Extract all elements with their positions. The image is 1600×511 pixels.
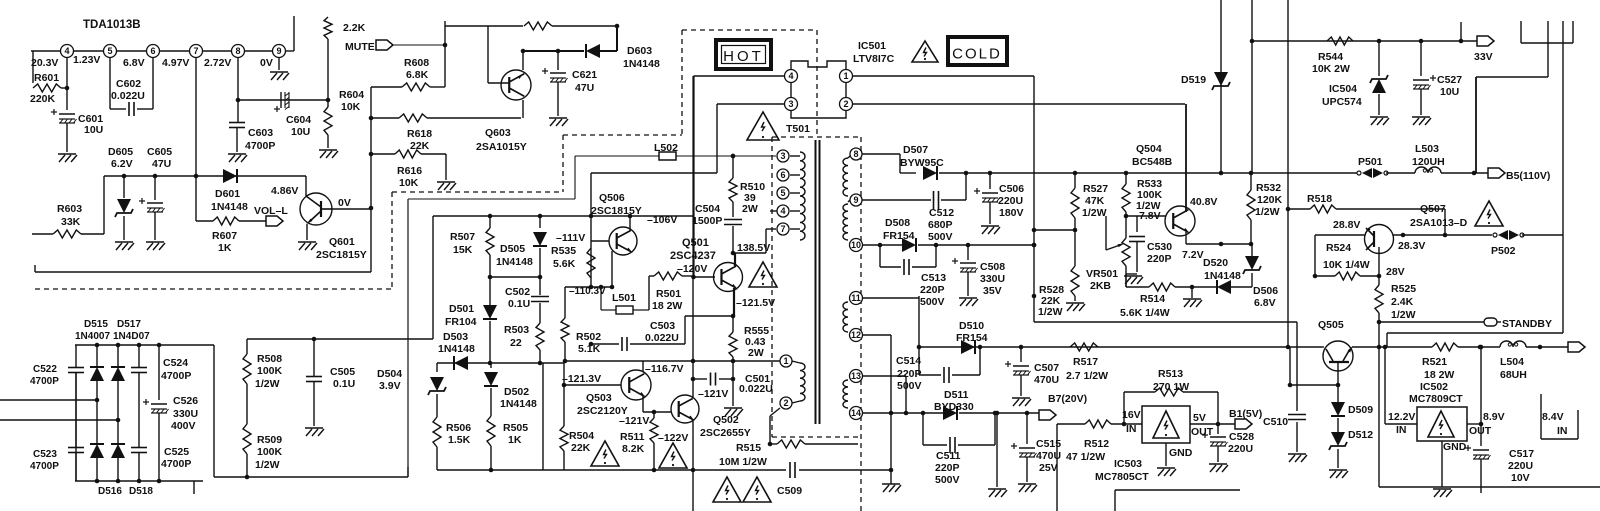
svg-text:180V: 180V (999, 207, 1024, 219)
wire Q501 collector (734, 253, 736, 266)
svg-text:FR154: FR154 (956, 332, 988, 344)
svg-text:0V: 0V (338, 197, 351, 209)
wire main emitter rail (565, 360, 780, 362)
svg-text:4700P: 4700P (161, 458, 191, 470)
wire box left (432, 216, 434, 339)
resistor 2.2K (324, 17, 332, 39)
svg-text:D503: D503 (443, 331, 468, 343)
svg-text:500V: 500V (920, 296, 945, 308)
svg-text:–111V: –111V (556, 232, 585, 244)
connector 33V (1477, 36, 1494, 46)
svg-text:P502: P502 (1491, 245, 1516, 257)
svg-text:C506: C506 (999, 183, 1024, 195)
svg-text:3: 3 (788, 99, 793, 109)
diode D601 (223, 169, 237, 183)
svg-text:R607: R607 (212, 230, 237, 242)
svg-text:C530: C530 (1147, 241, 1172, 253)
inductor L503 (1415, 167, 1441, 173)
svg-text:C513: C513 (921, 272, 946, 284)
svg-text:1K: 1K (218, 242, 232, 254)
transistor Q501 (714, 263, 743, 292)
svg-text:R512: R512 (1084, 438, 1109, 450)
diode D517 (117, 345, 119, 366)
svg-text:22K: 22K (571, 442, 591, 454)
wire pin11 ext (918, 296, 920, 298)
svg-text:B1(5V): B1(5V) (1229, 408, 1262, 420)
svg-text:1N4148: 1N4148 (500, 398, 537, 410)
diode D520 (1217, 280, 1231, 294)
capacitor C513 (879, 245, 881, 267)
wire Q503 base node (563, 363, 565, 385)
diode D605 zener (123, 176, 125, 198)
resistor R515 (770, 408, 780, 416)
wire D601 to Q601 (305, 176, 307, 196)
svg-text:Q503: Q503 (586, 392, 612, 404)
svg-text:IN: IN (1396, 424, 1407, 436)
svg-text:L503: L503 (1415, 143, 1439, 155)
svg-text:1/2W: 1/2W (1391, 309, 1416, 321)
svg-text:12.2V: 12.2V (1388, 411, 1415, 423)
diode D505 (539, 216, 541, 228)
svg-text:R601: R601 (34, 72, 59, 84)
resistor R513 bypass (1123, 392, 1125, 424)
svg-text:1N4148: 1N4148 (623, 58, 660, 70)
warning triangle b4 (743, 477, 771, 502)
svg-text:7: 7 (780, 224, 785, 234)
svg-text:C605: C605 (147, 146, 172, 158)
transistor Q506 (609, 227, 637, 255)
svg-text:1N4148: 1N4148 (438, 343, 475, 355)
wire bridge right col (213, 345, 215, 477)
svg-text:C621: C621 (572, 69, 597, 81)
wire bottom box right (1115, 489, 1240, 491)
wire bridge bottom rail (75, 480, 203, 482)
svg-text:4: 4 (788, 71, 793, 81)
svg-text:–116.7V: –116.7V (645, 363, 684, 375)
svg-text:1/2W: 1/2W (1082, 207, 1107, 219)
resistor R514 (1126, 286, 1149, 288)
resistor R601 (32, 51, 34, 83)
resistor R521 (1432, 343, 1458, 351)
svg-text:BYW95C: BYW95C (900, 157, 944, 169)
diode D501 (483, 305, 497, 319)
connector STANDBY (1484, 318, 1497, 326)
wire r527 tap (1034, 229, 1075, 231)
connector pair P502 (1493, 233, 1497, 237)
svg-text:4: 4 (780, 206, 785, 216)
wire rail q505 l (1322, 346, 1324, 348)
svg-text:C510: C510 (1263, 416, 1288, 428)
svg-text:BYD330: BYD330 (934, 401, 974, 413)
capacitor C507 (1020, 347, 1022, 362)
svg-text:D506: D506 (1253, 285, 1278, 297)
svg-text:Q506: Q506 (599, 192, 625, 204)
pin 5 (104, 45, 117, 58)
svg-text:R501: R501 (656, 288, 681, 300)
regulator IC502 box (1417, 407, 1467, 441)
svg-text:R511: R511 (620, 431, 645, 443)
resistor R506 (433, 417, 441, 447)
opto IC501 pin4 (785, 70, 798, 83)
resistor R604 (327, 100, 329, 107)
wire pin row (31, 50, 286, 52)
transformer pin 8 (850, 148, 862, 160)
resistor R535 (587, 248, 595, 278)
svg-text:10K: 10K (399, 177, 419, 189)
resistor R507 (489, 216, 491, 228)
svg-text:3: 3 (780, 151, 785, 161)
wire Q601 collector 0V (332, 208, 371, 210)
wire bridge mid left1 (0, 399, 97, 401)
svg-text:47K: 47K (1085, 195, 1105, 207)
wire standby rail (1034, 321, 1297, 323)
svg-text:C514: C514 (896, 355, 921, 367)
svg-text:R521: R521 (1422, 356, 1447, 368)
inductor L504 (1500, 341, 1526, 347)
wire pin8 down (237, 58, 239, 122)
svg-text:4700P: 4700P (30, 376, 59, 387)
transformer pin 14 (850, 407, 863, 420)
wire standby link (1562, 235, 1564, 333)
svg-text:D512: D512 (1348, 429, 1373, 441)
svg-text:28V: 28V (1386, 266, 1405, 278)
svg-text:220K: 220K (30, 93, 56, 105)
svg-text:Q507: Q507 (1420, 203, 1446, 215)
svg-text:D515: D515 (84, 319, 108, 330)
transformer core (815, 140, 817, 424)
svg-text:6.2V: 6.2V (111, 158, 133, 170)
svg-text:C604: C604 (286, 114, 311, 126)
zener D512 (1331, 432, 1345, 446)
wire IC502 out col (1480, 347, 1482, 424)
resistor R501 (648, 276, 650, 310)
svg-text:8.9V: 8.9V (1483, 411, 1505, 423)
pot VR501 (1125, 216, 1127, 238)
svg-text:6.8V: 6.8V (123, 57, 145, 69)
svg-text:R603: R603 (57, 203, 82, 215)
svg-text:R502: R502 (576, 331, 601, 343)
transistor Q502 (671, 395, 699, 423)
transformer pin 4 (777, 205, 789, 217)
diode D511 (943, 406, 957, 420)
svg-text:13: 13 (851, 371, 861, 381)
capacitor C523 (75, 400, 77, 447)
wire bridge mid left2 (0, 419, 118, 421)
connector B1 (1235, 419, 1252, 429)
svg-text:R508: R508 (257, 353, 282, 365)
ground C501 (724, 407, 742, 409)
wire right box (1378, 347, 1380, 487)
svg-text:500V: 500V (897, 380, 922, 392)
svg-text:10K 1/4W: 10K 1/4W (1323, 259, 1370, 271)
svg-text:FR154: FR154 (883, 230, 915, 242)
svg-text:8.2K: 8.2K (622, 443, 645, 455)
svg-text:IC504: IC504 (1329, 83, 1357, 95)
wire r512 down (1056, 424, 1058, 511)
svg-text:7: 7 (193, 46, 198, 56)
wire bridge exit stub (193, 481, 195, 494)
svg-text:4.97V: 4.97V (162, 57, 189, 69)
ground C508 (959, 297, 977, 299)
svg-text:Q501: Q501 (682, 237, 709, 249)
transformer pin 12 (850, 329, 863, 342)
transistor Q505 (1323, 341, 1353, 371)
svg-text:C502: C502 (505, 286, 530, 298)
svg-text:D504: D504 (377, 368, 402, 380)
transformer pin 11 (850, 292, 863, 305)
svg-text:C523: C523 (33, 449, 57, 460)
resistor R528 (1071, 266, 1079, 296)
capacitor C530 (1136, 216, 1138, 232)
svg-text:1N4148: 1N4148 (496, 256, 533, 268)
svg-text:C524: C524 (163, 357, 188, 369)
svg-text:35V: 35V (983, 285, 1002, 297)
wire bottom rail (437, 469, 786, 471)
svg-text:0.1U: 0.1U (333, 378, 355, 390)
wire pin1 right (852, 75, 1034, 77)
svg-text:IC503: IC503 (1114, 458, 1142, 470)
dashed hot boundary (35, 288, 392, 290)
wire q507 rail l (1315, 234, 1365, 236)
transistor Q503 (621, 370, 651, 400)
wire opto1 down (1033, 76, 1035, 322)
resistor R517 (1070, 343, 1098, 351)
svg-text:120UH: 120UH (1412, 156, 1445, 168)
resistor R518 (1310, 205, 1336, 213)
svg-text:47U: 47U (575, 82, 594, 94)
wire standby col (1296, 322, 1298, 385)
svg-text:220U: 220U (998, 195, 1023, 207)
capacitor C526 (158, 345, 160, 400)
wire Q502 emitter (692, 420, 694, 470)
svg-text:680P: 680P (928, 219, 953, 231)
wire IC502 in col (1384, 347, 1386, 424)
svg-text:100K: 100K (257, 365, 283, 377)
primary winding lower (800, 363, 805, 401)
svg-text:D509: D509 (1348, 404, 1373, 416)
svg-text:4700P: 4700P (161, 370, 191, 382)
wire topright 1 (1520, 21, 1522, 43)
transformer pin 7 (777, 223, 789, 235)
svg-text:R524: R524 (1326, 242, 1351, 254)
ground C515 (1018, 483, 1036, 485)
warning triangle Q507 (1475, 201, 1503, 226)
diode D603 (600, 50, 617, 52)
wire IC502 gnd (1441, 441, 1443, 487)
wire bottom exit (692, 470, 694, 511)
svg-text:R525: R525 (1391, 283, 1416, 295)
svg-text:Q504: Q504 (1136, 143, 1162, 155)
svg-text:UPC574: UPC574 (1322, 96, 1362, 108)
svg-text:10U: 10U (84, 124, 103, 136)
svg-text:5V: 5V (1193, 412, 1206, 424)
svg-text:C504: C504 (695, 203, 720, 215)
svg-text:D507: D507 (903, 144, 928, 156)
svg-text:VOL–L: VOL–L (254, 205, 288, 217)
capacitor C509 (789, 462, 791, 478)
svg-text:Q603: Q603 (485, 127, 511, 139)
wire q504 base (1126, 215, 1166, 217)
svg-text:LTV8I7C: LTV8I7C (853, 53, 895, 65)
opto IC501 pin2 (840, 98, 853, 111)
svg-text:–106V: –106V (647, 214, 677, 226)
capacitor C506 (989, 173, 991, 189)
svg-text:1N4007: 1N4007 (75, 331, 110, 342)
svg-text:C508: C508 (980, 261, 1005, 273)
svg-text:C517: C517 (1509, 448, 1534, 460)
svg-text:20.3V: 20.3V (31, 57, 58, 69)
capacitor C508 (967, 245, 969, 260)
svg-text:2SA1013–D: 2SA1013–D (1410, 217, 1468, 229)
ground IC504 (1370, 116, 1388, 118)
svg-text:10V: 10V (1511, 472, 1530, 484)
svg-text:6: 6 (780, 170, 785, 180)
capacitor C505 (313, 339, 315, 376)
wire pin3 opto (716, 104, 718, 173)
svg-text:10M 1/2W: 10M 1/2W (719, 456, 767, 468)
svg-text:R513: R513 (1158, 368, 1183, 380)
svg-text:COLD: COLD (952, 46, 1002, 63)
capacitor C515 (1026, 413, 1028, 444)
svg-text:2: 2 (843, 99, 848, 109)
capacitor C511 (922, 413, 924, 445)
svg-text:220P: 220P (920, 284, 945, 296)
svg-text:6.8V: 6.8V (1254, 297, 1276, 309)
svg-text:2.4K: 2.4K (1391, 296, 1414, 308)
resistor R502 (564, 287, 566, 318)
svg-text:IN: IN (1557, 425, 1568, 437)
svg-text:0V: 0V (260, 57, 273, 69)
svg-text:10K: 10K (341, 101, 361, 113)
capacitor C604 (280, 92, 282, 108)
svg-text:68UH: 68UH (1500, 369, 1527, 381)
svg-text:R616: R616 (397, 165, 422, 177)
capacitor C503 (591, 343, 619, 345)
svg-text:33V: 33V (1474, 51, 1493, 63)
svg-text:14: 14 (851, 408, 861, 418)
svg-text:10K 2W: 10K 2W (1312, 63, 1350, 75)
wire hot top (575, 155, 776, 157)
regulator IC503 box (1142, 406, 1190, 443)
svg-text:B7(20V): B7(20V) (1048, 393, 1087, 405)
svg-text:R544: R544 (1318, 51, 1343, 63)
transformer pin 10 (850, 239, 863, 252)
svg-text:C526: C526 (173, 395, 198, 407)
wire R518 feed (1288, 208, 1310, 210)
svg-text:16V: 16V (1122, 409, 1141, 421)
svg-text:C522: C522 (33, 364, 57, 375)
svg-text:1N4148: 1N4148 (1204, 270, 1241, 282)
capacitor C527 (1420, 41, 1422, 76)
wire IC503 out (1190, 423, 1235, 425)
svg-text:R505: R505 (503, 422, 528, 434)
resistor R603 (32, 233, 53, 235)
warning triangle b2 (659, 443, 687, 468)
resistor R544 (1327, 37, 1353, 45)
primary winding upper (800, 152, 805, 240)
svg-text:C603: C603 (248, 127, 273, 139)
svg-text:2SA1015Y: 2SA1015Y (476, 141, 527, 153)
svg-text:18 2W: 18 2W (652, 300, 682, 312)
svg-text:3.9V: 3.9V (379, 380, 401, 392)
svg-text:47U: 47U (152, 158, 171, 170)
capacitor C517 (1480, 424, 1482, 446)
wire audio lowrail (104, 175, 306, 177)
svg-text:C503: C503 (650, 320, 675, 332)
svg-text:D601: D601 (215, 188, 240, 200)
svg-text:T501: T501 (786, 123, 810, 135)
wire q507 rail r (1393, 234, 1492, 236)
capacitor C603 (229, 122, 245, 124)
svg-text:D518: D518 (129, 486, 153, 497)
capacitor C502 (531, 296, 549, 298)
resistor R533 (1125, 173, 1127, 184)
svg-text:22K: 22K (410, 140, 430, 152)
ground C605 (146, 241, 164, 243)
svg-text:D501: D501 (449, 303, 474, 315)
pin 4 (61, 45, 74, 58)
resistor R607 (196, 220, 213, 222)
zener D519 (1220, 0, 1222, 173)
pin 8 (232, 45, 245, 58)
svg-text:28.3V: 28.3V (1398, 240, 1425, 252)
secondary winding 9-10 (843, 204, 848, 240)
svg-text:2KB: 2KB (1090, 280, 1111, 292)
secondary winding 13-14 (843, 380, 848, 408)
wire IC502 out (1467, 423, 1481, 425)
capacitor C528 (1217, 424, 1219, 434)
ground C621 (549, 117, 567, 119)
ground C528 (1209, 463, 1227, 465)
wire R518 down (1444, 209, 1446, 235)
svg-text:R527: R527 (1083, 183, 1108, 195)
wire q501 drive (692, 76, 694, 277)
transistor Q603 (501, 70, 531, 100)
svg-text:1: 1 (843, 71, 848, 81)
svg-text:5.6K: 5.6K (553, 258, 576, 270)
wire pin12 out (863, 334, 891, 336)
resistor R532 (1250, 173, 1252, 190)
ground R528 (1066, 302, 1084, 304)
transistor Q601 (300, 193, 332, 225)
wire b7 down (996, 413, 998, 487)
svg-text:BC548B: BC548B (1132, 156, 1173, 168)
diode D502 (490, 363, 492, 368)
svg-text:1K: 1K (508, 434, 522, 446)
secondary winding 8-9 (843, 158, 848, 196)
warning triangle b3 (713, 477, 741, 502)
resistor R504 (560, 426, 568, 451)
svg-text:12: 12 (851, 330, 861, 340)
wire pin11 out (863, 297, 919, 299)
svg-text:5.6K 1/4W: 5.6K 1/4W (1120, 307, 1170, 319)
wire B5 rail (1034, 172, 1357, 174)
transformer pin 6 (777, 169, 789, 181)
capacitor C601 (59, 113, 75, 115)
capacitor C514 (919, 374, 941, 376)
svg-text:R604: R604 (339, 89, 364, 101)
pin 6 (147, 45, 160, 58)
resistor R524 (1315, 275, 1335, 277)
wire pin10 out (863, 244, 902, 246)
ground R514 (1191, 287, 1193, 298)
wire Q503 collector (642, 361, 644, 372)
wire r507 d505 join (490, 276, 540, 278)
connector B5 (1488, 168, 1505, 178)
svg-text:400V: 400V (171, 420, 196, 432)
svg-text:D603: D603 (627, 45, 652, 57)
svg-text:1: 1 (783, 356, 788, 366)
